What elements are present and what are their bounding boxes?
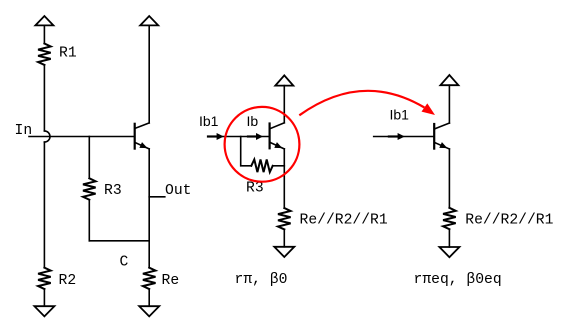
power symbol VCC left rail — [35, 16, 53, 44]
wire In to base of Q1 — [29, 136, 134, 138]
svg-text:R3: R3 — [246, 181, 264, 197]
wire base middle — [208, 136, 269, 138]
wire Re to ground — [148, 289, 150, 306]
red arrow to equivalent circuit — [299, 91, 435, 115]
wire rail hop down to R2 — [43, 142, 45, 268]
svg-text:Re//R2//R1: Re//R2//R1 — [465, 213, 553, 229]
power symbol VCC collector rail — [140, 16, 158, 123]
wire base right — [374, 136, 434, 138]
wire corner to emitter rail — [89, 240, 149, 242]
ground middle — [274, 247, 294, 257]
wire to ground right — [448, 229, 450, 247]
svg-text:rπeq, β0eq: rπeq, β0eq — [414, 272, 502, 288]
wire R3 branch from base wire — [88, 137, 90, 179]
wire R3 middle to emitter rail — [273, 165, 285, 167]
resistor Re — [143, 268, 156, 289]
ground right — [439, 247, 459, 257]
wire R2 to ground — [43, 289, 45, 306]
svg-text:Ib1: Ib1 — [390, 107, 410, 123]
wire emitter rail of Q1 down to Re — [148, 149, 150, 268]
svg-text:Out: Out — [165, 183, 191, 199]
wire rail R1 down to hop — [43, 65, 45, 131]
svg-text:Re//R2//R1: Re//R2//R1 — [300, 213, 388, 229]
svg-text:C: C — [120, 255, 129, 271]
wire R3 branch middle — [241, 137, 252, 166]
svg-text:rπ, β0: rπ, β0 — [235, 272, 288, 288]
power symbol VCC middle — [275, 75, 293, 122]
svg-text:R2: R2 — [59, 273, 77, 289]
svg-text:R1: R1 — [59, 46, 77, 62]
red highlight circle — [225, 107, 300, 182]
wire emitter rail middle — [283, 149, 285, 208]
resistor R3 middle horizontal — [251, 160, 272, 173]
wire emitter rail right — [448, 149, 450, 208]
svg-text:Re: Re — [162, 273, 180, 289]
svg-text:R3: R3 — [104, 183, 122, 199]
wire R3 bottom to corner — [88, 200, 90, 241]
resistor R1 — [38, 44, 51, 65]
resistor R2 — [38, 268, 51, 289]
resistor Re//R2//R1 middle — [278, 208, 291, 229]
svg-text:Ib1: Ib1 — [199, 113, 219, 129]
transistor Q1 — [135, 123, 150, 149]
resistor R3 — [83, 178, 96, 199]
ground emitter rail — [139, 306, 159, 316]
power symbol VCC right — [440, 75, 458, 123]
transistor Q2 — [270, 123, 285, 149]
resistor Re//R2//R1 right — [443, 208, 456, 229]
ground left rail — [34, 306, 54, 316]
wire to ground middle — [283, 229, 285, 246]
current arrow Ib1 right — [389, 133, 405, 140]
wire Out stub — [149, 196, 165, 198]
transistor Q3 — [434, 123, 449, 149]
current arrow Ib1 middle — [208, 133, 224, 140]
current arrow Ib — [248, 133, 263, 140]
svg-text:Ib: Ib — [247, 113, 259, 129]
wire hop over In wire — [44, 131, 50, 142]
